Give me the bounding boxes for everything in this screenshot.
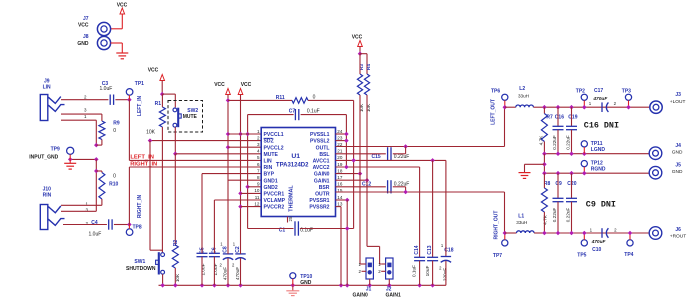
node rail B pin10 <box>238 191 243 196</box>
net label RIGHT_IN <box>130 162 157 168</box>
svg-text:7: 7 <box>257 168 260 173</box>
wire J9 pin2 to C3 <box>61 99 108 101</box>
svg-text:PVCCR1: PVCCR1 <box>264 192 285 198</box>
capacitor C19 <box>565 107 577 154</box>
node pin23 <box>344 138 349 143</box>
svg-text:8: 8 <box>257 175 260 180</box>
wire input gnd down <box>95 159 97 211</box>
capacitor C8 polarized <box>219 242 233 286</box>
node MUTE <box>173 152 178 157</box>
J9 pin 3 label <box>84 108 87 113</box>
svg-text:C2: C2 <box>235 246 241 253</box>
ground at output filter <box>519 173 531 179</box>
ground at TP9 <box>64 159 76 169</box>
connector J9 labels <box>43 79 51 91</box>
svg-text:3: 3 <box>257 142 260 147</box>
label J2 GAIN1 <box>386 286 402 298</box>
VCC labels above chip <box>214 82 251 88</box>
switch SW2 dashed box <box>168 101 203 133</box>
junction gnd bus C2 <box>238 283 243 288</box>
capacitor C12 BSR <box>336 180 410 193</box>
label SW1 SHUTDOWN <box>126 259 156 272</box>
svg-text:RIGHT_IN: RIGHT_IN <box>137 194 143 218</box>
capacitor C3 <box>100 81 114 105</box>
svg-text:470uF: 470uF <box>591 239 607 245</box>
wire OUTR row pin15 <box>336 192 505 233</box>
capacitor C4 <box>89 219 113 237</box>
svg-text:GND1: GND1 <box>264 178 278 184</box>
svg-text:LEFT_IN: LEFT_IN <box>137 95 143 116</box>
wire RGND bus <box>544 172 649 174</box>
svg-text:C9: C9 <box>555 181 562 187</box>
junction gnd bus p14 <box>345 283 350 288</box>
svg-text:11: 11 <box>255 195 260 200</box>
svg-text:GND: GND <box>672 169 683 175</box>
wire J9 pin3 <box>61 114 102 121</box>
wire LGND bus <box>544 153 649 155</box>
node pin14 C1 line <box>345 226 350 231</box>
svg-text:220uF: 220uF <box>442 268 447 281</box>
svg-text:LIN: LIN <box>43 85 51 91</box>
svg-text:GND2: GND2 <box>264 185 278 191</box>
svg-text:10: 10 <box>254 188 260 193</box>
svg-text:9: 9 <box>257 182 260 187</box>
svg-text:RGND: RGND <box>591 167 606 173</box>
node GAIN1 <box>365 178 370 183</box>
svg-text:MUTE: MUTE <box>183 114 198 120</box>
test point TP3 <box>622 88 632 109</box>
svg-text:C14: C14 <box>414 245 420 254</box>
node C12 to OUTR <box>403 190 408 195</box>
junction LGND <box>582 151 587 156</box>
connector J4 <box>649 143 683 160</box>
wire R1 down to SW1 <box>161 127 163 252</box>
wire J10 pin3 <box>61 210 96 212</box>
node GAIN0 <box>358 171 363 176</box>
svg-text:PVSSR2: PVSSR2 <box>309 205 329 211</box>
connector J5 <box>649 162 683 179</box>
node LOUT R7 <box>542 105 547 110</box>
resistor R4 <box>364 64 370 113</box>
J10 pin 1 label <box>85 202 88 207</box>
junction gnd bus C14 <box>417 283 422 288</box>
svg-text:470uF: 470uF <box>223 267 228 280</box>
jumper J2 <box>378 258 393 279</box>
svg-text:C9 DNI: C9 DNI <box>586 199 616 209</box>
svg-text:GND: GND <box>77 41 89 47</box>
wire jog to R10 <box>96 171 102 173</box>
resistor R1 <box>146 94 165 135</box>
svg-text:6: 6 <box>257 162 260 167</box>
wire R10 to J10 pin1 <box>101 199 103 205</box>
wire SW2 to MUTE row <box>174 127 176 154</box>
connector J10 labels <box>43 186 52 198</box>
svg-text:PVSSL1: PVSSL1 <box>310 132 330 138</box>
net label LEFT_IN <box>130 155 154 161</box>
wire pin12 row <box>241 206 262 208</box>
VCC label above R3 R4 <box>352 35 363 41</box>
svg-text:TP9: TP9 <box>51 147 60 153</box>
svg-text:17: 17 <box>337 175 343 180</box>
svg-text:L1: L1 <box>518 214 524 220</box>
wire VCC rail A <box>227 95 229 247</box>
wire VCC to SW2 <box>162 94 175 107</box>
node branch pin9 <box>245 185 250 190</box>
svg-text:RIN: RIN <box>43 192 52 198</box>
connector J3 <box>650 92 686 114</box>
power VCC label at J7 <box>117 3 128 9</box>
wire GAIN0 row pin18 <box>336 173 361 175</box>
VCC symbol R3 R4 <box>358 41 363 54</box>
wire R4 down to J2 <box>367 95 381 264</box>
wire OUTL row pin22 <box>336 107 505 146</box>
J10 pin 3 label <box>85 208 88 213</box>
wire AVCC1 row pin20 <box>336 159 446 161</box>
svg-text:12: 12 <box>254 201 260 206</box>
wire MUTE to pin4 <box>175 153 261 155</box>
wire input gnd line <box>70 158 96 160</box>
wire SDZ down to SW1 <box>150 141 162 251</box>
wire PVSSR2 pin13 down <box>336 207 342 286</box>
net LEFT_IN vertical label <box>137 95 143 116</box>
capacitor C10 polarized <box>590 227 618 253</box>
node AVCC2 junction <box>344 165 349 170</box>
svg-text:0.1uF: 0.1uF <box>307 108 320 114</box>
wire LOUT bus <box>544 106 649 108</box>
svg-text:C17: C17 <box>594 88 603 94</box>
svg-text:VCLAMP: VCLAMP <box>264 198 286 204</box>
capacitor C7 <box>248 108 347 120</box>
wire J2 pin2 to gnd <box>388 279 390 285</box>
svg-text:R4: R4 <box>366 64 371 70</box>
junction gnd bus C6 <box>212 283 217 288</box>
wire C7 right down <box>345 115 347 167</box>
node rail B pin12 <box>238 204 243 209</box>
svg-text:5: 5 <box>257 155 260 160</box>
test point TP6 <box>491 88 508 107</box>
capacitor C2 polarized <box>232 242 246 286</box>
test point TP7 <box>493 231 508 259</box>
svg-text:470uF: 470uF <box>592 96 608 102</box>
wire SDZ from pin2 <box>150 140 261 142</box>
wire pin8 GND1 row <box>229 179 262 181</box>
svg-text:C16 DNI: C16 DNI <box>584 120 619 130</box>
svg-text:L2: L2 <box>519 86 525 92</box>
wire pin1 row <box>228 133 261 135</box>
test point TP1 <box>126 81 144 100</box>
node ROUT C20 <box>569 231 574 236</box>
svg-text:C8: C8 <box>222 246 228 253</box>
svg-text:VCC: VCC <box>148 68 159 74</box>
inductor L1 <box>505 214 545 233</box>
pin 25 thermal stub <box>288 216 293 222</box>
svg-text:10K: 10K <box>146 130 156 136</box>
wire LIN row <box>129 159 261 161</box>
node pin1-R9 <box>94 143 99 148</box>
VCC symbol at J7 <box>111 8 125 29</box>
svg-text:C19: C19 <box>568 114 577 120</box>
wire pin7 BYP row <box>202 173 261 175</box>
junction RGND <box>569 171 574 176</box>
svg-text:VCC: VCC <box>352 35 363 41</box>
note C16 DNI <box>584 120 619 130</box>
svg-text:TP1: TP1 <box>135 81 144 87</box>
wire LGND to RGND <box>543 154 545 174</box>
resistor R8 <box>541 173 550 233</box>
test point TP11 <box>581 141 605 154</box>
svg-text:2: 2 <box>257 135 260 140</box>
svg-text:VCC: VCC <box>214 82 225 88</box>
svg-text:VCC: VCC <box>78 23 89 29</box>
svg-text:TP4: TP4 <box>624 252 633 258</box>
junction RGND <box>542 171 547 176</box>
svg-text:PVCCR2: PVCCR2 <box>264 205 285 211</box>
net RIGHT_OUT label <box>494 211 500 240</box>
wire C4 to TP8 node <box>114 224 129 226</box>
svg-text:14: 14 <box>337 195 343 200</box>
svg-text:25: 25 <box>288 216 293 221</box>
svg-text:4.7K: 4.7K <box>543 214 548 225</box>
svg-text:LEFT_IN: LEFT_IN <box>130 155 154 161</box>
svg-text:TP2: TP2 <box>576 88 585 94</box>
wire R11 right down <box>353 100 355 228</box>
svg-text:33uH: 33uH <box>516 220 527 225</box>
junction LGND <box>542 151 547 156</box>
capacitor C14 <box>411 167 425 285</box>
capacitor C1 <box>248 221 354 235</box>
svg-text:C7: C7 <box>289 108 296 114</box>
capacitor C6 <box>209 200 220 285</box>
svg-text:20: 20 <box>337 155 343 160</box>
svg-text:18: 18 <box>337 168 343 173</box>
net LEFT_OUT label <box>491 99 497 125</box>
svg-text:0: 0 <box>113 128 116 134</box>
node R10 top <box>94 169 99 174</box>
junction LGND <box>556 151 561 156</box>
ground at J8 <box>116 53 128 59</box>
svg-text:C10: C10 <box>592 247 601 253</box>
svg-text:PVCCL1: PVCCL1 <box>264 132 284 138</box>
VCC symbol above R1 <box>160 75 165 95</box>
svg-text:C4: C4 <box>91 220 98 226</box>
node rail A R11 <box>226 98 231 103</box>
capacitor C16 <box>552 107 564 154</box>
wire pin23 row <box>336 140 347 142</box>
wire J1 pin2 to gnd <box>369 279 371 285</box>
capacitor C9 <box>552 173 564 233</box>
svg-text:J8: J8 <box>83 34 89 40</box>
svg-text:13: 13 <box>337 201 343 206</box>
svg-text:U1: U1 <box>291 153 300 160</box>
svg-text:R9: R9 <box>113 121 120 127</box>
svg-text:SDZ: SDZ <box>264 139 274 145</box>
wire LEFT_IN down <box>128 100 130 161</box>
wire pin9 GND2 row <box>248 186 262 188</box>
test point TP4 <box>624 231 633 258</box>
connector J6 <box>649 227 686 240</box>
node rail B pin1 <box>238 132 243 137</box>
VCC symbol rail A <box>226 89 231 95</box>
svg-text:GAIN0: GAIN0 <box>353 293 369 299</box>
svg-text:C16: C16 <box>555 114 564 120</box>
node ROUT R8 <box>542 231 547 236</box>
wire ground bus <box>159 284 446 286</box>
svg-text:PVSSR1: PVSSR1 <box>309 198 329 204</box>
svg-text:PVCCL2: PVCCL2 <box>264 145 284 151</box>
VCC label above R1 <box>148 68 159 74</box>
svg-text:0.1uF: 0.1uF <box>411 265 416 277</box>
svg-text:1: 1 <box>257 129 260 134</box>
resistor R10 <box>99 173 119 200</box>
ground at TP10 <box>286 285 299 295</box>
svg-text:0.22uF: 0.22uF <box>394 154 410 160</box>
svg-text:GAIN1: GAIN1 <box>386 293 402 299</box>
svg-text:AVCC1: AVCC1 <box>313 159 330 165</box>
svg-text:24: 24 <box>337 129 343 134</box>
switch SW2 <box>173 108 181 128</box>
wire J10 pin2 to C4 <box>63 224 107 226</box>
node R3 R4 top <box>358 51 363 56</box>
svg-text:BSR: BSR <box>319 185 330 191</box>
svg-text:LGND: LGND <box>591 147 606 153</box>
J9 pin 2 label <box>84 94 87 99</box>
node input gnd <box>68 157 99 162</box>
node C15 to OUTL <box>403 144 408 149</box>
svg-text:16: 16 <box>337 182 343 187</box>
wire pin3 row <box>228 146 261 148</box>
node gnd tie <box>542 162 547 167</box>
label SW2 MUTE <box>183 108 199 120</box>
svg-text:1.0uF: 1.0uF <box>89 232 102 238</box>
wire VCC rail B <box>240 95 242 247</box>
wire pin10 row <box>241 192 262 194</box>
wire AVCC2 row pin19 <box>336 166 420 168</box>
node SDZ <box>148 138 153 143</box>
svg-text:SHUTDOWN: SHUTDOWN <box>126 266 156 272</box>
inductor L2 <box>505 86 545 107</box>
svg-text:R1: R1 <box>155 101 162 107</box>
junction gnd bus SW1 <box>160 283 165 288</box>
svg-text:J4: J4 <box>675 143 681 149</box>
IC U1 TPA3124D2 <box>254 128 342 217</box>
wire ROUT bus <box>544 232 649 234</box>
svg-text:MUTE: MUTE <box>264 152 279 158</box>
junction gnd bus TP10 <box>291 283 296 288</box>
audio jack J10 <box>40 205 64 230</box>
wire pin24 row <box>336 133 347 135</box>
junction RGND <box>556 171 561 176</box>
svg-text:21: 21 <box>337 149 343 154</box>
VCC symbol rail B <box>238 89 243 95</box>
switch SW1 <box>156 252 165 274</box>
svg-text:TP6: TP6 <box>491 88 500 94</box>
note C9 DNI <box>586 199 616 209</box>
node LOUT C19 <box>569 105 574 110</box>
svg-text:4: 4 <box>257 149 260 154</box>
node branch pin1 <box>245 132 250 137</box>
wire J9 pin1 <box>61 120 96 145</box>
junction RGND <box>582 171 587 176</box>
junction gnd bus J2g <box>387 283 392 288</box>
wire GAIN1 row pin17 <box>336 179 368 181</box>
resistor R3 <box>357 54 363 112</box>
resistor R11 <box>228 95 354 104</box>
svg-text:AVCC2: AVCC2 <box>313 165 330 171</box>
wire R2 to gnd bus <box>174 268 176 285</box>
svg-text:LIN: LIN <box>264 159 273 165</box>
svg-text:TP5: TP5 <box>577 252 586 258</box>
svg-text:1.0uF: 1.0uF <box>100 86 113 92</box>
resistor R9 <box>99 121 120 140</box>
wire J8 to ground <box>111 43 123 53</box>
svg-text:TP8: TP8 <box>133 224 142 230</box>
svg-text:J1: J1 <box>366 286 372 292</box>
svg-text:RIN: RIN <box>264 165 273 171</box>
svg-text:J5: J5 <box>675 162 681 168</box>
svg-text:VCC: VCC <box>241 82 252 88</box>
svg-text:0: 0 <box>313 95 316 101</box>
test point TP2 <box>576 88 588 109</box>
resistor R7 <box>539 107 553 154</box>
svg-text:0: 0 <box>113 173 116 179</box>
wire R3 down to J1 <box>360 95 362 264</box>
test point TP5 <box>577 231 587 259</box>
svg-text:R10: R10 <box>109 181 118 187</box>
svg-text:33uH: 33uH <box>518 93 529 98</box>
node LOUT C16 <box>556 105 561 110</box>
jumper J1 <box>359 258 374 279</box>
node rail A pin3 <box>226 145 231 150</box>
svg-text:OUTL: OUTL <box>316 145 330 151</box>
audio jack J9 <box>40 95 64 121</box>
node TP8 junction <box>127 222 132 227</box>
svg-text:BSL: BSL <box>319 152 329 158</box>
wire R9 to node <box>96 140 102 146</box>
svg-text:RIGHT_OUT: RIGHT_OUT <box>494 211 500 240</box>
wire C7 branch vertical <box>247 115 249 229</box>
svg-text:BYP: BYP <box>264 172 275 178</box>
capacitor C20 <box>565 173 577 233</box>
wire C3 to TP1 node <box>115 99 129 101</box>
svg-text:10uF: 10uF <box>425 266 430 277</box>
svg-text:+ROUT: +ROUT <box>670 233 686 239</box>
junction gnd bus C5 <box>200 283 205 288</box>
svg-text:SW1: SW1 <box>134 259 145 265</box>
capacitor C17 polarized <box>589 88 617 112</box>
wire RIGHT_IN up <box>128 167 130 225</box>
svg-text:TP7: TP7 <box>493 253 502 259</box>
node AVCC1 junctions <box>351 158 435 163</box>
capacitor C5 <box>197 174 208 286</box>
junction gnd bus p13 <box>339 283 344 288</box>
resistor R2 <box>172 240 180 283</box>
net RIGHT_IN vertical label <box>137 194 143 218</box>
svg-text:0.22uF: 0.22uF <box>565 208 570 223</box>
svg-text:470uF: 470uF <box>235 267 240 280</box>
node TP1 junction <box>127 97 132 102</box>
junction gnd bus R2 <box>173 283 178 288</box>
test point TP8 <box>126 224 142 235</box>
svg-text:PVSSL2: PVSSL2 <box>310 139 330 145</box>
svg-text:GND: GND <box>672 150 683 156</box>
svg-text:C13: C13 <box>427 245 433 254</box>
node rail A pin1 <box>226 132 231 137</box>
svg-text:TP3: TP3 <box>622 88 631 94</box>
svg-text:OUTR: OUTR <box>315 192 330 198</box>
svg-text:J6: J6 <box>675 227 681 233</box>
svg-text:19: 19 <box>337 162 343 167</box>
test point TP9 <box>51 147 74 160</box>
